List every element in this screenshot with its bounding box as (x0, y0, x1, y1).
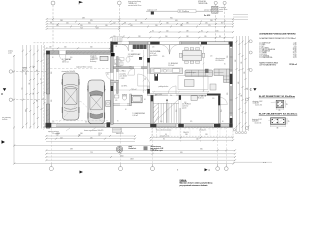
hall internal dim line horizontal (114, 89, 147, 91)
svg-text:6,10 m2: 6,10 m2 (133, 115, 139, 117)
legend rows (259, 42, 296, 59)
svg-text:68: 68 (124, 23, 126, 25)
svg-text:zbrojenie 6 fi12: zbrojenie 6 fi12 (252, 119, 262, 121)
wc door swing (128, 69, 135, 76)
car 2 in garage (87, 80, 105, 124)
near-wall dim numbers (49, 31, 221, 49)
svg-text:300: 300 (25, 109, 27, 112)
toilet (123, 94, 127, 100)
bottom flag marker (80, 171, 84, 174)
small dark box annotation (144, 146, 148, 150)
boiler in garage (106, 101, 111, 107)
double door swing arcs kitchen (160, 45, 180, 55)
svg-text:90: 90 (125, 109, 127, 111)
svg-text:255: 255 (216, 31, 219, 33)
svg-text:230: 230 (185, 134, 188, 136)
svg-text:85: 85 (224, 64, 226, 66)
svg-text:157,86 m2: 157,86 m2 (289, 64, 297, 66)
svg-text:365: 365 (200, 149, 203, 151)
outer wall garage top (46, 51, 110, 55)
svg-text:513: 513 (60, 137, 63, 139)
svg-text:905: 905 (180, 152, 183, 154)
svg-text:1.4 KUCHNIA: 1.4 KUCHNIA (150, 50, 161, 53)
svg-text:410: 410 (238, 81, 240, 84)
section marker C right (250, 88, 257, 92)
svg-text:240: 240 (80, 133, 83, 135)
svg-text:nadproze L19: nadproze L19 (147, 10, 157, 12)
wiatrolap door swing (114, 60, 121, 67)
svg-text:268: 268 (85, 122, 88, 124)
svg-text:zbrojenie 4 fi12: zbrojenie 4 fi12 (253, 101, 263, 103)
detail S1 drawing (276, 100, 288, 112)
short dashed drops right section (157, 128, 201, 142)
svg-text:90: 90 (40, 78, 42, 80)
svg-text:38,75 m2: 38,75 m2 (62, 61, 69, 63)
entrance door swing (122, 45, 128, 51)
svg-text:525: 525 (52, 122, 55, 124)
svg-text:1.6 SPIZ.: 1.6 SPIZ. (121, 86, 128, 88)
svg-text:ZESTAWIENIE POMIESZCZEN PARTER: ZESTAWIENIE POMIESZCZEN PARTERU (259, 33, 296, 36)
outer wall top main (111, 42, 233, 45)
coffee table (185, 80, 195, 87)
hall internal dim line vertical (143, 50, 145, 93)
svg-text:rzedna: rzedna (8, 51, 13, 53)
jadalnia label (168, 62, 178, 67)
svg-text:25: 25 (286, 104, 288, 106)
legend totals (259, 62, 297, 67)
stairs left wall x151.5 (151, 95, 154, 124)
right dimension verticals (237, 36, 249, 131)
top right hatch block (212, 6, 219, 13)
terrace strip texts (156, 129, 207, 141)
svg-text:90: 90 (165, 134, 167, 136)
internal dim line living vertical (203, 46, 205, 92)
svg-text:320: 320 (227, 92, 229, 95)
svg-text:28: 28 (155, 95, 157, 97)
bottom dashed drops (51, 127, 226, 167)
room label salon (198, 95, 207, 100)
svg-text:325: 325 (90, 20, 93, 22)
svg-text:185: 185 (140, 23, 143, 25)
left dimension ticks (13, 50, 45, 129)
svg-text:C: C (250, 88, 252, 92)
garage note block (90, 56, 99, 63)
svg-text:152: 152 (98, 135, 101, 137)
dashed door track line in garage (52, 120, 108, 122)
bathroom wall y81 (111, 81, 119, 83)
svg-text:152,0: 152,0 (98, 133, 102, 135)
svg-text:wieniec W1: wieniec W1 (204, 10, 212, 12)
bathroom wall y104.5 (113, 104, 131, 106)
svg-text:118: 118 (49, 47, 52, 49)
svg-text:120: 120 (210, 56, 213, 58)
svg-text:264: 264 (221, 109, 223, 112)
svg-text:1823: 1823 (130, 159, 134, 161)
bathtub (132, 95, 143, 103)
svg-text:240: 240 (33, 92, 35, 95)
garage door swing dashes (57, 101, 105, 124)
svg-text:155: 155 (205, 23, 208, 25)
svg-text:SLUP ZELBETOWY S2 25x38cm: SLUP ZELBETOWY S2 25x38cm (259, 113, 298, 115)
legend header (259, 33, 296, 40)
svg-text:250: 250 (244, 71, 246, 74)
room label wiatrolap (128, 53, 142, 58)
extra long row y145.5 (14, 145, 152, 147)
svg-text:260: 260 (70, 57, 73, 59)
interior thin wall x117 (117, 57, 119, 94)
svg-text:236: 236 (210, 20, 213, 22)
svg-text:120: 120 (212, 98, 215, 100)
svg-text:276: 276 (90, 137, 93, 139)
bottom dimension rows (14, 136, 272, 164)
door hall-living swing (138, 74, 150, 86)
svg-text:120: 120 (152, 47, 155, 49)
svg-text:130: 130 (105, 25, 108, 27)
armchair (210, 84, 216, 90)
svg-text:-0,02: -0,02 (8, 53, 12, 55)
detail S2 labels (252, 119, 271, 125)
svg-text:414: 414 (184, 102, 187, 104)
svg-text:198: 198 (186, 36, 189, 38)
beam line with label (146, 10, 223, 13)
svg-text:598: 598 (82, 18, 85, 20)
interior wall x219 vertical (218, 95, 220, 123)
dashed beam line in garage (50, 67, 111, 69)
svg-text:38,30 m2: 38,30 m2 (198, 98, 204, 100)
svg-text:268: 268 (60, 20, 63, 22)
svg-text:437: 437 (96, 27, 99, 29)
sill tick row below wall (156, 128, 225, 129)
stairs door arc (168, 86, 176, 94)
roof overhang dashed line top of garage (34, 42, 111, 44)
svg-text:230: 230 (155, 25, 158, 27)
shrub symbol (116, 146, 122, 152)
right dimension ticks (236, 41, 250, 128)
grid bubble A top (51, 1, 55, 51)
note UWAGA (180, 179, 214, 187)
top right short dims (233, 15, 248, 20)
svg-text:P1 25x40cm: P1 25x40cm (179, 11, 189, 13)
svg-text:905: 905 (170, 18, 173, 20)
svg-text:welna 15cm: welna 15cm (219, 9, 228, 11)
svg-text:230x120: 230x120 (183, 132, 189, 134)
dark block top middle (151, 12, 154, 15)
terrace dashed outline bottom right (152, 128, 233, 137)
svg-text:19,21: 19,21 (293, 57, 297, 59)
svg-text:120: 120 (241, 61, 243, 64)
svg-text:7,95 m2: 7,95 m2 (131, 89, 137, 91)
room label kuchnia (150, 50, 161, 57)
bottom dim texts (56, 133, 208, 161)
svg-text:775: 775 (22, 87, 24, 90)
dining table with chairs (179, 48, 204, 64)
garderoba label (133, 112, 145, 117)
hall text specks (120, 74, 128, 88)
svg-text:214: 214 (131, 51, 134, 53)
detail S2 drawing (271, 118, 290, 130)
hall small texts (120, 70, 137, 92)
bottom-left note block (151, 145, 164, 152)
svg-text:spadek 1%: spadek 1% (90, 59, 98, 61)
car 1 in garage (62, 73, 80, 120)
svg-text:598: 598 (70, 149, 73, 151)
right bottom small circles (235, 132, 246, 134)
entrance porch steps (113, 37, 123, 42)
north flag marker (79, 1, 83, 5)
svg-text:180: 180 (241, 94, 243, 97)
dimension row close above top wall (46, 32, 233, 48)
svg-text:90: 90 (141, 58, 143, 60)
svg-text:410: 410 (175, 20, 178, 22)
svg-text:panele: panele (182, 108, 187, 110)
couch facing terrace (185, 70, 213, 77)
room B door arc (220, 97, 227, 104)
svg-text:320: 320 (90, 47, 93, 49)
svg-text:218: 218 (138, 36, 141, 38)
svg-text:90: 90 (200, 46, 202, 48)
svg-text:38: 38 (277, 127, 279, 129)
terrace hatch (160, 128, 220, 137)
svg-text:295: 295 (25, 72, 27, 75)
svg-text:152,0: 152,0 (56, 133, 60, 135)
svg-text:250: 250 (80, 25, 83, 27)
svg-text:120: 120 (56, 25, 59, 27)
detail S1 labels (253, 101, 277, 107)
right dim rotated numbers (235, 59, 249, 97)
room label garage (62, 58, 72, 63)
svg-text:1.1 WIATROLAP: 1.1 WIATROLAP (128, 53, 142, 56)
svg-text:152: 152 (56, 135, 59, 137)
bathroom wall x130.5 (130, 94, 132, 106)
left grid bubble 2 (9, 98, 46, 101)
junction dots (116, 66, 118, 68)
leader lines below garage (66, 128, 120, 132)
wall x180 dark top (179, 95, 181, 100)
washbasin (115, 95, 119, 98)
svg-text:305: 305 (88, 23, 91, 25)
svg-text:713: 713 (90, 152, 93, 154)
svg-text:68: 68 (116, 46, 118, 48)
top dimension tick marks (46, 18, 234, 30)
right bubbles on dimension lines (245, 40, 252, 130)
gutter dashed line left (43, 43, 45, 130)
svg-text:90: 90 (222, 121, 224, 123)
svg-text:260: 260 (180, 25, 183, 27)
svg-text:210: 210 (66, 23, 69, 25)
svg-text:90: 90 (52, 57, 54, 59)
svg-text:85: 85 (221, 23, 223, 25)
left texts (8, 51, 27, 72)
svg-text:25: 25 (279, 110, 281, 112)
svg-text:198: 198 (186, 31, 189, 33)
annotation block left of rows (128, 146, 137, 150)
left grid bubble 1 (9, 70, 46, 73)
svg-text:385: 385 (190, 121, 193, 123)
bottom triangle-4 marker (205, 168, 211, 172)
grid bubble C top (214, 1, 217, 41)
svg-text:podloga deska: podloga deska (159, 86, 169, 88)
fireplace dark (154, 70, 158, 80)
svg-text:182: 182 (115, 62, 117, 65)
svg-text:260: 260 (176, 109, 178, 112)
annotations below garage (2, 116, 124, 139)
grid bubble B top (117, 1, 121, 42)
svg-text:890: 890 (247, 87, 249, 90)
svg-text:245: 245 (33, 65, 35, 68)
svg-text:120: 120 (205, 134, 208, 136)
svg-text:165: 165 (204, 36, 207, 38)
svg-text:89: 89 (219, 36, 221, 38)
interior wall y94 horizontal (147, 94, 220, 96)
svg-text:92: 92 (135, 20, 137, 22)
svg-text:145: 145 (130, 25, 133, 27)
svg-text:200: 200 (165, 36, 168, 38)
ticks for near-wall dim rows (45, 31, 234, 49)
svg-text:25: 25 (288, 121, 290, 123)
svg-text:160: 160 (166, 23, 169, 25)
top dimension numbers (50, 18, 223, 30)
svg-text:200: 200 (166, 31, 169, 33)
svg-text:590: 590 (51, 71, 53, 74)
detail title S2 (259, 113, 298, 115)
garage shelf (100, 56, 108, 60)
room label pokoj (182, 104, 191, 110)
svg-text:200: 200 (64, 47, 67, 49)
left dimension verticals (14, 45, 44, 164)
left dim rotated numbers (22, 65, 45, 112)
svg-text:posadzka: posadzka (120, 74, 127, 76)
interior wall x180 vertical (179, 95, 181, 123)
bottom dim ticks (13, 135, 236, 165)
svg-text:16x: 16x (170, 95, 173, 97)
svg-text:145: 145 (115, 100, 118, 102)
side table room A (191, 96, 197, 101)
exterior steps at hall (113, 128, 122, 133)
garage side door swing (59, 54, 66, 61)
svg-text:1.5 SALON: 1.5 SALON (198, 95, 207, 98)
svg-text:165: 165 (92, 57, 95, 59)
top dimension chain rows (47, 19, 234, 29)
svg-text:2x fi12: 2x fi12 (204, 15, 211, 17)
svg-text:22,10 m2: 22,10 m2 (168, 65, 174, 67)
svg-text:= 215,30 m n.p.m.: = 215,30 m n.p.m. (151, 150, 164, 152)
svg-text:325: 325 (145, 77, 147, 80)
svg-text:713: 713 (80, 27, 83, 29)
svg-text:5,60 m2: 5,60 m2 (128, 56, 134, 58)
svg-text:230: 230 (227, 55, 229, 58)
svg-text:ocieplenie: ocieplenie (219, 7, 226, 9)
right wall note (216, 57, 226, 62)
svg-text:67: 67 (123, 36, 125, 38)
svg-text:345: 345 (235, 59, 237, 62)
interior wall kitchen-hall vertical (147, 45, 150, 94)
grid bubble D top (223, 1, 226, 41)
downspout circle bottom right (233, 129, 235, 131)
svg-text:HS 320x230: HS 320x230 (216, 60, 224, 62)
svg-text:385: 385 (162, 56, 165, 58)
outer wall bottom (46, 122, 233, 127)
svg-text:80: 80 (201, 31, 203, 33)
stairs (153, 99, 179, 123)
interior wall wiatrolap bottom (113, 67, 149, 69)
column at entrance black (111, 53, 115, 56)
svg-text:575: 575 (108, 72, 110, 75)
svg-text:90: 90 (117, 121, 119, 123)
svg-text:98: 98 (50, 23, 52, 25)
svg-text:160: 160 (29, 82, 31, 85)
svg-text:h=45cm: h=45cm (2, 119, 8, 121)
svg-text:SLUP ZELBETOWY S1 25x25cm: SLUP ZELBETOWY S1 25x25cm (259, 96, 296, 98)
svg-text:180: 180 (186, 23, 189, 25)
rug (178, 76, 208, 90)
outer wall left (46, 51, 49, 129)
svg-text:C: C (1, 92, 3, 96)
left edge triangle marker bottom (2, 140, 6, 143)
interior wall garage-hall vertical (111, 45, 114, 125)
small note block above beam (128, 0, 142, 7)
kitchen end appliance (205, 69, 209, 73)
svg-text:264: 264 (160, 121, 163, 123)
svg-text:14,35 m2: 14,35 m2 (182, 106, 188, 108)
bottom grid bubbles (49, 164, 228, 171)
svg-text:240: 240 (51, 99, 53, 102)
svg-text:przy wymiarach otworow w budow: przy wymiarach otworow w budowie (180, 184, 209, 187)
svg-text:14,20 m2: 14,20 m2 (150, 53, 156, 55)
WC fixtures middle (120, 57, 131, 66)
door garage-hall swing (106, 73, 114, 81)
top right small texts (198, 0, 208, 5)
interior dimension specks (51, 46, 229, 124)
svg-text:112: 112 (113, 23, 116, 25)
texts beside hatch block (219, 7, 228, 11)
entrance wardrobe dark (133, 45, 147, 49)
svg-text:95: 95 (152, 31, 154, 33)
svg-text:68: 68 (144, 99, 146, 101)
sofa L-shaped (214, 69, 230, 83)
outer wall right (230, 42, 233, 127)
svg-text:gr. 15: gr. 15 (22, 70, 26, 72)
detail title S1 (259, 96, 296, 98)
svg-text:zjazd: zjazd (128, 146, 132, 148)
kitchen counter (151, 68, 183, 74)
section marker C left (1, 88, 6, 96)
svg-text:275: 275 (208, 25, 211, 27)
internal dim line living horizontal (152, 91, 209, 93)
